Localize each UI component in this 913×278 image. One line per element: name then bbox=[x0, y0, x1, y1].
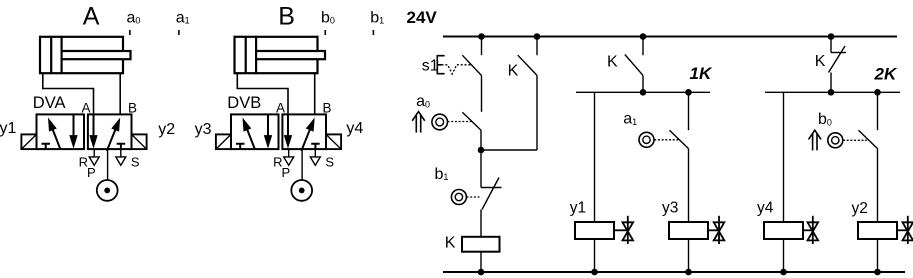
pressure source P of DVA: stub bbox=[107, 149, 109, 180]
svg-text:y4: y4 bbox=[757, 200, 774, 217]
wire 2K bus to y4 coil bbox=[783, 92, 785, 222]
switch s1 NO contact blade bbox=[462, 55, 481, 75]
svg-text:2K: 2K bbox=[874, 64, 898, 83]
junction 1K bus / a1 branch bbox=[685, 89, 692, 96]
pressure source circle of DVB bbox=[291, 180, 312, 201]
junction 2K bus / K feed bbox=[828, 89, 835, 96]
solenoid y2 pilot box on DVA bbox=[132, 134, 147, 149]
junction node s1 branch / K branch bbox=[478, 147, 485, 154]
svg-text:S: S bbox=[131, 154, 140, 169]
wire b0 branch top stub bbox=[877, 92, 879, 130]
wire K coil to bottom rail bbox=[480, 252, 482, 272]
wire K holding branch top stub bbox=[536, 37, 538, 56]
svg-text:K: K bbox=[445, 234, 456, 251]
wire a1 contact to y3 coil bbox=[688, 149, 690, 222]
junction top rail / K contact branch bbox=[534, 33, 541, 40]
contact K (2K group) NC fixed bar bbox=[831, 52, 846, 54]
solenoid y4 pilot box on DVB bbox=[326, 134, 341, 149]
valve DVA body left position box bbox=[37, 114, 85, 149]
svg-text:24V: 24V bbox=[407, 8, 438, 27]
wire 2K group bus bbox=[765, 91, 900, 93]
contact b1 NC fixed bar bbox=[481, 187, 502, 189]
junction top rail / 1K group branch bbox=[640, 33, 647, 40]
sensor b1 roller circle bbox=[451, 190, 466, 205]
wire junction to b1 contact bbox=[480, 150, 482, 188]
svg-text:y1: y1 bbox=[570, 200, 586, 217]
svg-text:P: P bbox=[282, 165, 291, 180]
node a0 tick mark bbox=[129, 30, 131, 35]
svg-text:DVA: DVA bbox=[33, 94, 66, 112]
exhaust S of DVA: stub and triangle bbox=[120, 149, 122, 156]
contact K holding NO blade bbox=[518, 55, 537, 75]
exhaust S of DVB: stub and triangle bbox=[314, 149, 316, 156]
sensor b0 mechanical link dashed bbox=[843, 139, 867, 141]
exhaust R of DVB: stub and triangle bbox=[288, 149, 290, 156]
junction bottom rail / y1 bbox=[591, 269, 598, 276]
contact a0 NO blade bbox=[462, 112, 481, 130]
svg-text:S: S bbox=[325, 154, 334, 169]
svg-text:B: B bbox=[128, 100, 137, 115]
wire 2K group branch top stub bbox=[830, 37, 832, 53]
wire y4 coil to bottom rail bbox=[783, 239, 785, 272]
valve DVB body left position box bbox=[231, 114, 279, 149]
svg-text:y1: y1 bbox=[0, 120, 17, 137]
svg-text:y4: y4 bbox=[346, 120, 363, 137]
wire K holding branch down to junction bbox=[536, 75, 538, 150]
valve symbol at y2 coil bbox=[897, 216, 913, 244]
sensor b0 actuation direction arrow bbox=[809, 130, 822, 150]
valve DVA body right position box bbox=[88, 114, 132, 149]
wire 1K group branch top stub bbox=[642, 37, 644, 56]
wire a1 branch top stub bbox=[688, 92, 690, 130]
svg-text:y3: y3 bbox=[662, 200, 678, 217]
svg-text:A: A bbox=[82, 100, 91, 115]
valve DVA left box: blocked port T bbox=[42, 144, 51, 149]
wire cylinder A right port to valve port B bbox=[119, 73, 121, 114]
sensor a1 mechanical link dashed bbox=[654, 139, 679, 141]
solenoid coil y1 bbox=[575, 222, 614, 239]
exhaust R of DVA: stub and triangle bbox=[93, 149, 95, 156]
wire b1 to relay coil K bbox=[480, 210, 482, 237]
solenoid coil y2 bbox=[858, 222, 897, 239]
sensor a0 roller circle bbox=[432, 114, 448, 130]
junction bottom rail / y2 bbox=[874, 269, 881, 276]
valve DVA right box: diagonal flow arrow (P to B) bbox=[107, 121, 119, 151]
junction bottom rail / K coil bbox=[478, 269, 485, 276]
valve DVB left box: blocked port T bbox=[236, 144, 245, 149]
wire y3 coil to bottom rail bbox=[688, 239, 690, 272]
valve DVB left box: diagonal flow arrow bbox=[244, 121, 255, 149]
relay coil K bbox=[462, 237, 500, 252]
wire K contact to 1K bus bbox=[642, 75, 644, 92]
svg-text:P: P bbox=[87, 165, 96, 180]
junction top rail / s1 branch bbox=[478, 33, 485, 40]
valve DVB right box: blocked port T bbox=[311, 144, 320, 149]
svg-text:1K: 1K bbox=[690, 64, 713, 83]
wire a0 contact to junction bbox=[480, 130, 482, 150]
pressure source circle of DVA bbox=[97, 180, 118, 201]
valve DVA right box: blocked port T bbox=[117, 144, 126, 149]
junction bottom rail / y4 bbox=[780, 269, 787, 276]
valve symbol at y1 coil bbox=[614, 216, 633, 244]
pressure source P of DVB: stub bbox=[301, 149, 303, 180]
switch s1 detent linkage dashed line and V latch bbox=[442, 65, 472, 74]
wire bottom return rail bbox=[443, 271, 905, 273]
sensor a0 mechanical link dashed bbox=[448, 121, 472, 123]
solenoid coil y4 bbox=[764, 222, 803, 239]
svg-text:y2: y2 bbox=[158, 121, 175, 138]
wire 1K group bus bbox=[576, 91, 710, 93]
wire cylinder A left port to valve port A bbox=[43, 73, 94, 114]
wire 1K bus to y1 coil bbox=[594, 92, 596, 222]
switch s1 detent actuator bracket bbox=[437, 56, 444, 74]
valve symbol at y4 coil bbox=[803, 216, 818, 244]
solenoid coil y3 bbox=[669, 222, 708, 239]
contact K (1K group) NO blade bbox=[625, 55, 643, 76]
wire s1 to a0 contact bbox=[481, 76, 483, 112]
valve DVB body right position box bbox=[282, 114, 326, 149]
junction top rail / 2K group branch bbox=[828, 33, 835, 40]
wire cylinder B left port to valve port A bbox=[237, 73, 288, 114]
wire junction to K branch bbox=[481, 149, 537, 151]
junction bottom rail / y3 bbox=[685, 269, 692, 276]
svg-text:A: A bbox=[276, 100, 285, 115]
wire K NC contact to 2K bus bbox=[830, 73, 832, 93]
contact b0 NO blade bbox=[859, 130, 878, 148]
sensor a1 roller circle bbox=[639, 132, 654, 147]
junction 2K bus / b0 branch bbox=[874, 89, 881, 96]
wire y2 coil to bottom rail bbox=[877, 239, 879, 272]
node a1 tick mark bbox=[178, 30, 180, 35]
contact b1 NC blade bbox=[482, 178, 499, 210]
svg-text:s1: s1 bbox=[422, 57, 439, 74]
svg-text:DVB: DVB bbox=[227, 94, 261, 112]
wire top supply rail bbox=[443, 36, 897, 38]
svg-text:A: A bbox=[83, 3, 100, 31]
contact a1 NO blade bbox=[670, 130, 689, 148]
sensor b0 roller circle bbox=[828, 133, 843, 148]
sensor b1 mechanical link dashed bbox=[467, 196, 480, 198]
svg-text:y2: y2 bbox=[852, 200, 868, 217]
wire s1 branch top stub bbox=[481, 37, 483, 56]
cylinder A bbox=[40, 37, 131, 73]
solenoid y1 pilot box on DVA bbox=[21, 134, 36, 149]
svg-text:y3: y3 bbox=[195, 121, 212, 138]
wire b0 contact to y2 coil bbox=[877, 149, 879, 222]
valve DVA left box: diagonal flow arrow bbox=[50, 121, 61, 149]
svg-text:K: K bbox=[508, 62, 519, 79]
cylinder B bbox=[235, 37, 326, 73]
valve DVB right box: down flow arrow (A to R) bbox=[287, 114, 289, 138]
junction 1K bus / K feed bbox=[640, 89, 647, 96]
svg-text:B: B bbox=[278, 3, 295, 31]
contact K (2K group) NC blade bbox=[829, 46, 846, 73]
wire cylinder B right port to valve port B bbox=[314, 73, 316, 114]
valve DVA left box: down flow arrow bbox=[73, 114, 75, 138]
valve DVB left box: down flow arrow bbox=[267, 114, 269, 138]
solenoid y3 pilot box on DVB bbox=[216, 134, 231, 149]
sensor a0 actuation direction arrow bbox=[412, 112, 425, 133]
valve DVA right box: down flow arrow (A to R) bbox=[93, 114, 95, 138]
node b0 tick mark bbox=[324, 30, 326, 35]
svg-text:K: K bbox=[815, 53, 826, 70]
svg-text:K: K bbox=[607, 54, 618, 71]
wire y1 coil to bottom rail bbox=[594, 239, 596, 272]
valve DVB right box: diagonal flow arrow (P to B) bbox=[301, 121, 313, 151]
valve symbol at y3 coil bbox=[708, 216, 724, 244]
node b1 tick mark bbox=[372, 30, 374, 35]
svg-text:B: B bbox=[323, 100, 332, 115]
